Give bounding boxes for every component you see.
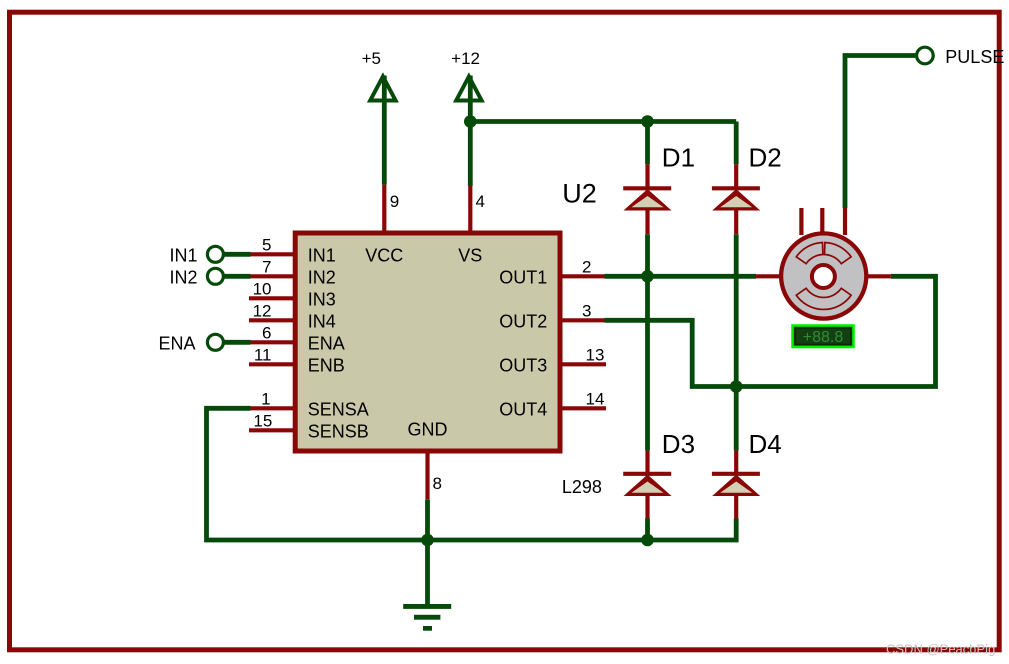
svg-text:+5: +5 — [362, 49, 381, 68]
svg-text:3: 3 — [582, 301, 591, 320]
svg-text:14: 14 — [586, 389, 605, 408]
svg-text:13: 13 — [586, 345, 605, 364]
svg-text:ENA: ENA — [158, 333, 195, 353]
svg-text:1: 1 — [261, 390, 270, 409]
svg-text:+12: +12 — [451, 49, 480, 68]
svg-text:2: 2 — [582, 257, 591, 276]
svg-text:PULSE: PULSE — [945, 47, 1004, 67]
svg-text:U2: U2 — [562, 179, 597, 209]
svg-text:VCC: VCC — [365, 245, 403, 265]
svg-text:5: 5 — [262, 236, 271, 255]
svg-text:ENA: ENA — [308, 333, 345, 353]
svg-text:OUT1: OUT1 — [499, 267, 547, 287]
svg-text:D3: D3 — [662, 429, 695, 459]
svg-text:8: 8 — [433, 474, 442, 493]
svg-text:IN3: IN3 — [308, 289, 336, 309]
svg-text:VS: VS — [458, 245, 482, 265]
svg-text:OUT2: OUT2 — [499, 311, 547, 331]
svg-text:10: 10 — [253, 280, 272, 299]
svg-text:D1: D1 — [662, 142, 695, 172]
svg-text:GND: GND — [408, 420, 448, 440]
svg-text:IN4: IN4 — [308, 311, 336, 331]
svg-text:OUT3: OUT3 — [499, 355, 547, 375]
svg-text:IN2: IN2 — [169, 267, 197, 287]
svg-text:7: 7 — [262, 258, 271, 277]
svg-text:OUT4: OUT4 — [499, 399, 547, 419]
svg-text:SENSA: SENSA — [308, 399, 369, 419]
svg-text:+88.8: +88.8 — [803, 329, 844, 346]
svg-text:SENSB: SENSB — [308, 421, 369, 441]
svg-text:IN2: IN2 — [308, 267, 336, 287]
svg-text:ENB: ENB — [308, 355, 345, 375]
svg-text:4: 4 — [476, 192, 485, 211]
svg-text:IN1: IN1 — [308, 245, 336, 265]
svg-text:IN1: IN1 — [169, 245, 197, 265]
svg-text:CSDN @PeachPig: CSDN @PeachPig — [886, 642, 995, 657]
svg-text:9: 9 — [390, 192, 399, 211]
svg-text:D2: D2 — [749, 142, 782, 172]
svg-text:12: 12 — [253, 302, 272, 321]
svg-text:15: 15 — [253, 412, 272, 431]
svg-text:6: 6 — [262, 324, 271, 343]
svg-text:D4: D4 — [749, 429, 782, 459]
svg-text:L298: L298 — [562, 477, 602, 497]
svg-text:11: 11 — [254, 346, 272, 365]
